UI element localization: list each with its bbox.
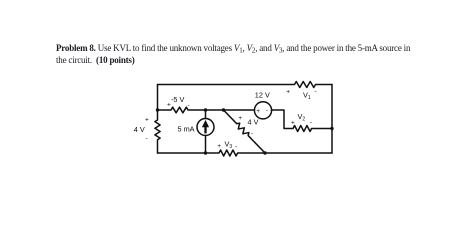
svg-text:-: - — [235, 143, 237, 150]
svg-text:+: + — [291, 120, 295, 127]
svg-text:+: + — [286, 89, 290, 96]
svg-text:V2: V2 — [298, 112, 306, 123]
svg-text:5 mA: 5 mA — [178, 125, 195, 134]
svg-text:+: + — [238, 115, 242, 122]
svg-text:-: - — [146, 135, 148, 142]
svg-text:4 V: 4 V — [134, 125, 145, 134]
svg-text:4 V: 4 V — [248, 117, 259, 126]
svg-text:V1: V1 — [303, 91, 311, 102]
svg-text:-5 V: -5 V — [171, 95, 185, 104]
svg-text:-: - — [266, 108, 268, 115]
svg-text:-: - — [251, 130, 253, 137]
svg-text:-: - — [310, 119, 312, 126]
svg-text:12 V: 12 V — [255, 90, 270, 99]
svg-text:V3: V3 — [225, 140, 233, 151]
svg-text:+: + — [167, 102, 171, 109]
svg-text:-: - — [188, 102, 190, 109]
svg-text:+: + — [217, 143, 221, 150]
svg-text:+: + — [256, 108, 260, 115]
svg-text:-: - — [315, 88, 317, 95]
svg-text:+: + — [145, 117, 149, 124]
